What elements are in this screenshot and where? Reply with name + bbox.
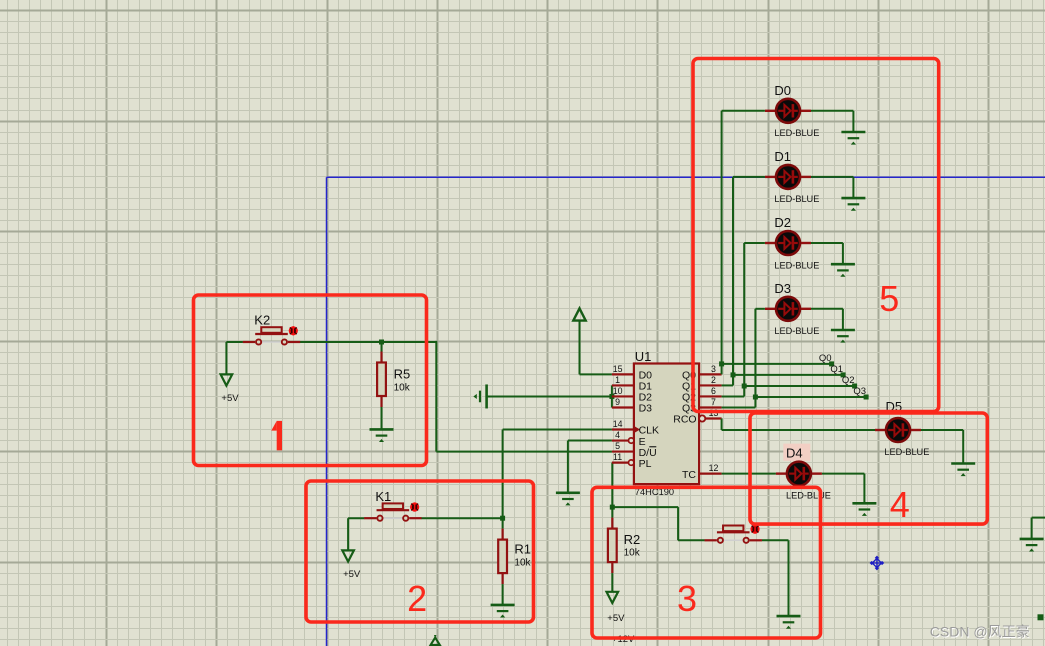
svg-text:4: 4 — [890, 484, 910, 525]
svg-text:12: 12 — [709, 463, 719, 473]
svg-text:LED-BLUE: LED-BLUE — [786, 490, 831, 500]
svg-text:15: 15 — [613, 364, 623, 374]
svg-text:3: 3 — [677, 578, 697, 619]
svg-text:D0: D0 — [774, 83, 791, 98]
svg-text:RCO: RCO — [673, 414, 696, 426]
svg-text:+5V: +5V — [221, 393, 239, 404]
svg-text:11: 11 — [613, 452, 622, 462]
svg-text:2: 2 — [407, 578, 427, 619]
svg-text:Q1: Q1 — [830, 364, 843, 375]
svg-text:D2: D2 — [774, 215, 791, 230]
svg-text:K2: K2 — [254, 313, 270, 328]
svg-text:PL: PL — [639, 458, 652, 470]
svg-text:9: 9 — [615, 397, 620, 407]
svg-text:10k: 10k — [394, 383, 411, 394]
svg-text:LED-BLUE: LED-BLUE — [774, 128, 819, 138]
svg-text:Q2: Q2 — [842, 375, 855, 386]
svg-text:LED-BLUE: LED-BLUE — [884, 447, 929, 457]
svg-text:R5: R5 — [394, 367, 411, 382]
svg-text:6: 6 — [711, 386, 716, 396]
svg-text:2: 2 — [711, 375, 716, 385]
svg-text:10: 10 — [613, 386, 623, 396]
svg-text:K1: K1 — [375, 489, 391, 504]
svg-text:U1: U1 — [635, 349, 652, 364]
svg-text:Q3: Q3 — [853, 386, 866, 397]
svg-text:14: 14 — [613, 419, 623, 429]
svg-text:R1: R1 — [514, 542, 531, 557]
svg-text:10k: 10k — [624, 548, 641, 559]
svg-text:+5V: +5V — [607, 613, 625, 624]
svg-text:+5V: +5V — [343, 569, 361, 580]
svg-text:5: 5 — [615, 441, 620, 451]
svg-text:LED-BLUE: LED-BLUE — [774, 194, 819, 204]
svg-text:LED-BLUE: LED-BLUE — [774, 260, 819, 270]
svg-text:Q0: Q0 — [819, 353, 832, 364]
svg-text:7: 7 — [711, 397, 716, 407]
svg-text:LED-BLUE: LED-BLUE — [774, 326, 819, 336]
svg-text:TC: TC — [682, 469, 696, 481]
svg-text:5: 5 — [879, 278, 899, 319]
svg-text:1: 1 — [615, 375, 620, 385]
svg-text:R2: R2 — [624, 532, 641, 547]
svg-text:3: 3 — [711, 364, 716, 374]
svg-text:D3: D3 — [639, 403, 653, 415]
svg-text:D1: D1 — [774, 149, 791, 164]
svg-text:D3: D3 — [774, 281, 791, 296]
svg-text:CSDN @风正豪: CSDN @风正豪 — [930, 624, 1030, 640]
svg-text:10k: 10k — [514, 558, 531, 569]
svg-text:D/U: D/U — [639, 447, 657, 459]
svg-text:D4: D4 — [786, 445, 803, 460]
svg-text:4: 4 — [615, 430, 620, 440]
